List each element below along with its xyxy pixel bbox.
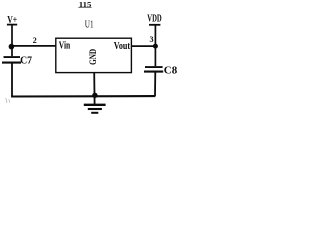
svg-text:2: 2 [33,36,37,45]
junction node A (V+ / C7 / Vin) [9,44,15,50]
bottom ground rail wire [11,95,155,98]
svg-text:C7: C7 [20,55,32,66]
scan artifact mark [6,98,10,103]
wire junction B to C8 [154,46,156,66]
wire pin Vout to VDD junction [131,45,155,47]
wire C8 to bottom rail [154,72,156,97]
power symbol VDD [147,14,161,46]
junction node B (VDD / C8 / Vout) [153,44,158,49]
svg-text:Vin: Vin [59,41,71,52]
wire V+ node to pin Vin [12,45,56,47]
ground symbol [84,105,106,113]
IC U1 box [56,38,132,72]
svg-text:VDD: VDD [147,14,161,25]
wire GND pin to rail [93,73,95,105]
capacitor C7 [2,57,21,63]
capacitor C8 [144,67,163,72]
junction node GND [92,93,97,98]
wire C7 to bottom rail [11,63,13,97]
svg-text:3: 3 [150,35,154,44]
wire junction A to C7 [11,46,13,56]
svg-text:C8: C8 [164,66,177,77]
svg-text:Vout: Vout [114,41,131,52]
svg-text:GND: GND [89,49,99,65]
power symbol V+ [7,14,17,46]
svg-text:U1: U1 [85,20,94,31]
page number 115 [78,0,91,9]
